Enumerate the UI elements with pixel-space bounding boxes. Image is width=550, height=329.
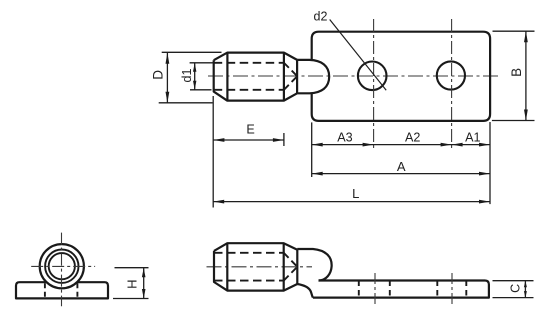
side view: hole 1 hidden edges [358, 281, 360, 298]
top view: barrel chamfer edge right [283, 53, 285, 101]
hole 1 (d2) in pad [358, 62, 387, 91]
dimension D extension line bottom [159, 102, 213, 104]
side view: neck top ogee curve [297, 249, 331, 281]
dimension line A3 A2 A1 [312, 144, 490, 146]
dimension C extension top [493, 280, 534, 282]
dimension B extension line bottom [492, 120, 535, 122]
top view: main horizontal centerline [208, 75, 499, 77]
svg-text:A: A [397, 159, 406, 174]
top view: hidden drill cone lower [284, 76, 297, 90]
dimension E line [213, 139, 284, 141]
dimension E right extension [283, 133, 285, 146]
dimension H extension bottom [113, 298, 149, 300]
dimension A line [312, 173, 490, 175]
svg-text:H: H [125, 280, 140, 289]
side view: barrel end face [296, 250, 298, 284]
dimension H line [143, 268, 145, 299]
top view: flat pad (palm) rounded rectangle, left edge interrupted by nose [312, 32, 490, 121]
side view: hidden drill cone upper [284, 253, 298, 267]
leader line from d2 to hole 1 [330, 20, 387, 91]
end view: horizontal centerline [31, 265, 95, 267]
svg-text:C: C [509, 284, 523, 293]
dimension D line [166, 53, 168, 103]
end view: hidden edge right [76, 283, 78, 298]
top view: crimp barrel outline [214, 53, 297, 101]
top view: hidden drill cone upper [284, 63, 297, 76]
dimension C extension bottom [493, 297, 534, 299]
dimension d1 extension line top [190, 62, 214, 64]
extension line from pad right edge down to L [489, 122, 491, 204]
top view: bullet nose transition [297, 60, 329, 93]
dimension d1 line [194, 63, 196, 90]
dimension H extension top [115, 267, 149, 269]
side view: horizontal centerline [207, 266, 313, 268]
dimension B extension line top [493, 30, 535, 32]
end view: vertical centerline [61, 233, 63, 307]
extension line from barrel left edge down to L [212, 96, 214, 208]
dimension d1 extension line bottom [190, 89, 212, 91]
side view: hidden bore top [214, 252, 284, 254]
side view: hole 2 centerline [451, 273, 453, 306]
hole 2 vertical centerline [451, 19, 453, 151]
svg-text:A3: A3 [337, 130, 352, 144]
side view: hidden drill cone lower [284, 267, 298, 281]
dimension L line [213, 201, 490, 203]
side view: hidden bore bottom [214, 280, 284, 282]
end view: hidden edge left [44, 283, 46, 298]
top view: barrel chamfer edge left [226, 53, 228, 101]
side view: barrel chamfer edge right [283, 243, 285, 290]
svg-text:A1: A1 [465, 130, 480, 144]
hole 2 in pad [437, 61, 465, 89]
svg-text:A2: A2 [405, 130, 420, 144]
side view: barrel chamfer edge left [226, 243, 228, 290]
dimension B line [525, 31, 527, 120]
top view: hidden bore line bottom (d1) [214, 89, 284, 91]
side view: neck bottom curve [297, 284, 313, 298]
end view: seat pad outline [16, 282, 108, 298]
svg-text:E: E [246, 123, 254, 137]
end view: barrel outer circle [40, 244, 84, 288]
top view: barrel end face [296, 60, 298, 93]
dimension C line [524, 281, 526, 298]
svg-text:d2: d2 [314, 9, 328, 23]
side view: hole 2 hidden edges [436, 281, 438, 298]
dimension D extension line top [162, 51, 222, 53]
side view: tongue bar outline [313, 281, 489, 298]
end view: bore circle d1 [49, 253, 75, 279]
side view: hole 1 centerline [374, 273, 376, 306]
svg-text:L: L [352, 186, 359, 201]
end view: bore chamfer circle [45, 250, 78, 283]
svg-text:B: B [509, 68, 524, 77]
svg-text:D: D [151, 70, 166, 80]
top view: hidden bore line top (d1) [214, 62, 284, 64]
extension line from pad left edge down to A [311, 122, 313, 177]
svg-text:d1: d1 [180, 69, 194, 83]
hole 1 vertical centerline [373, 19, 375, 151]
side view: crimp barrel outline [214, 243, 297, 290]
